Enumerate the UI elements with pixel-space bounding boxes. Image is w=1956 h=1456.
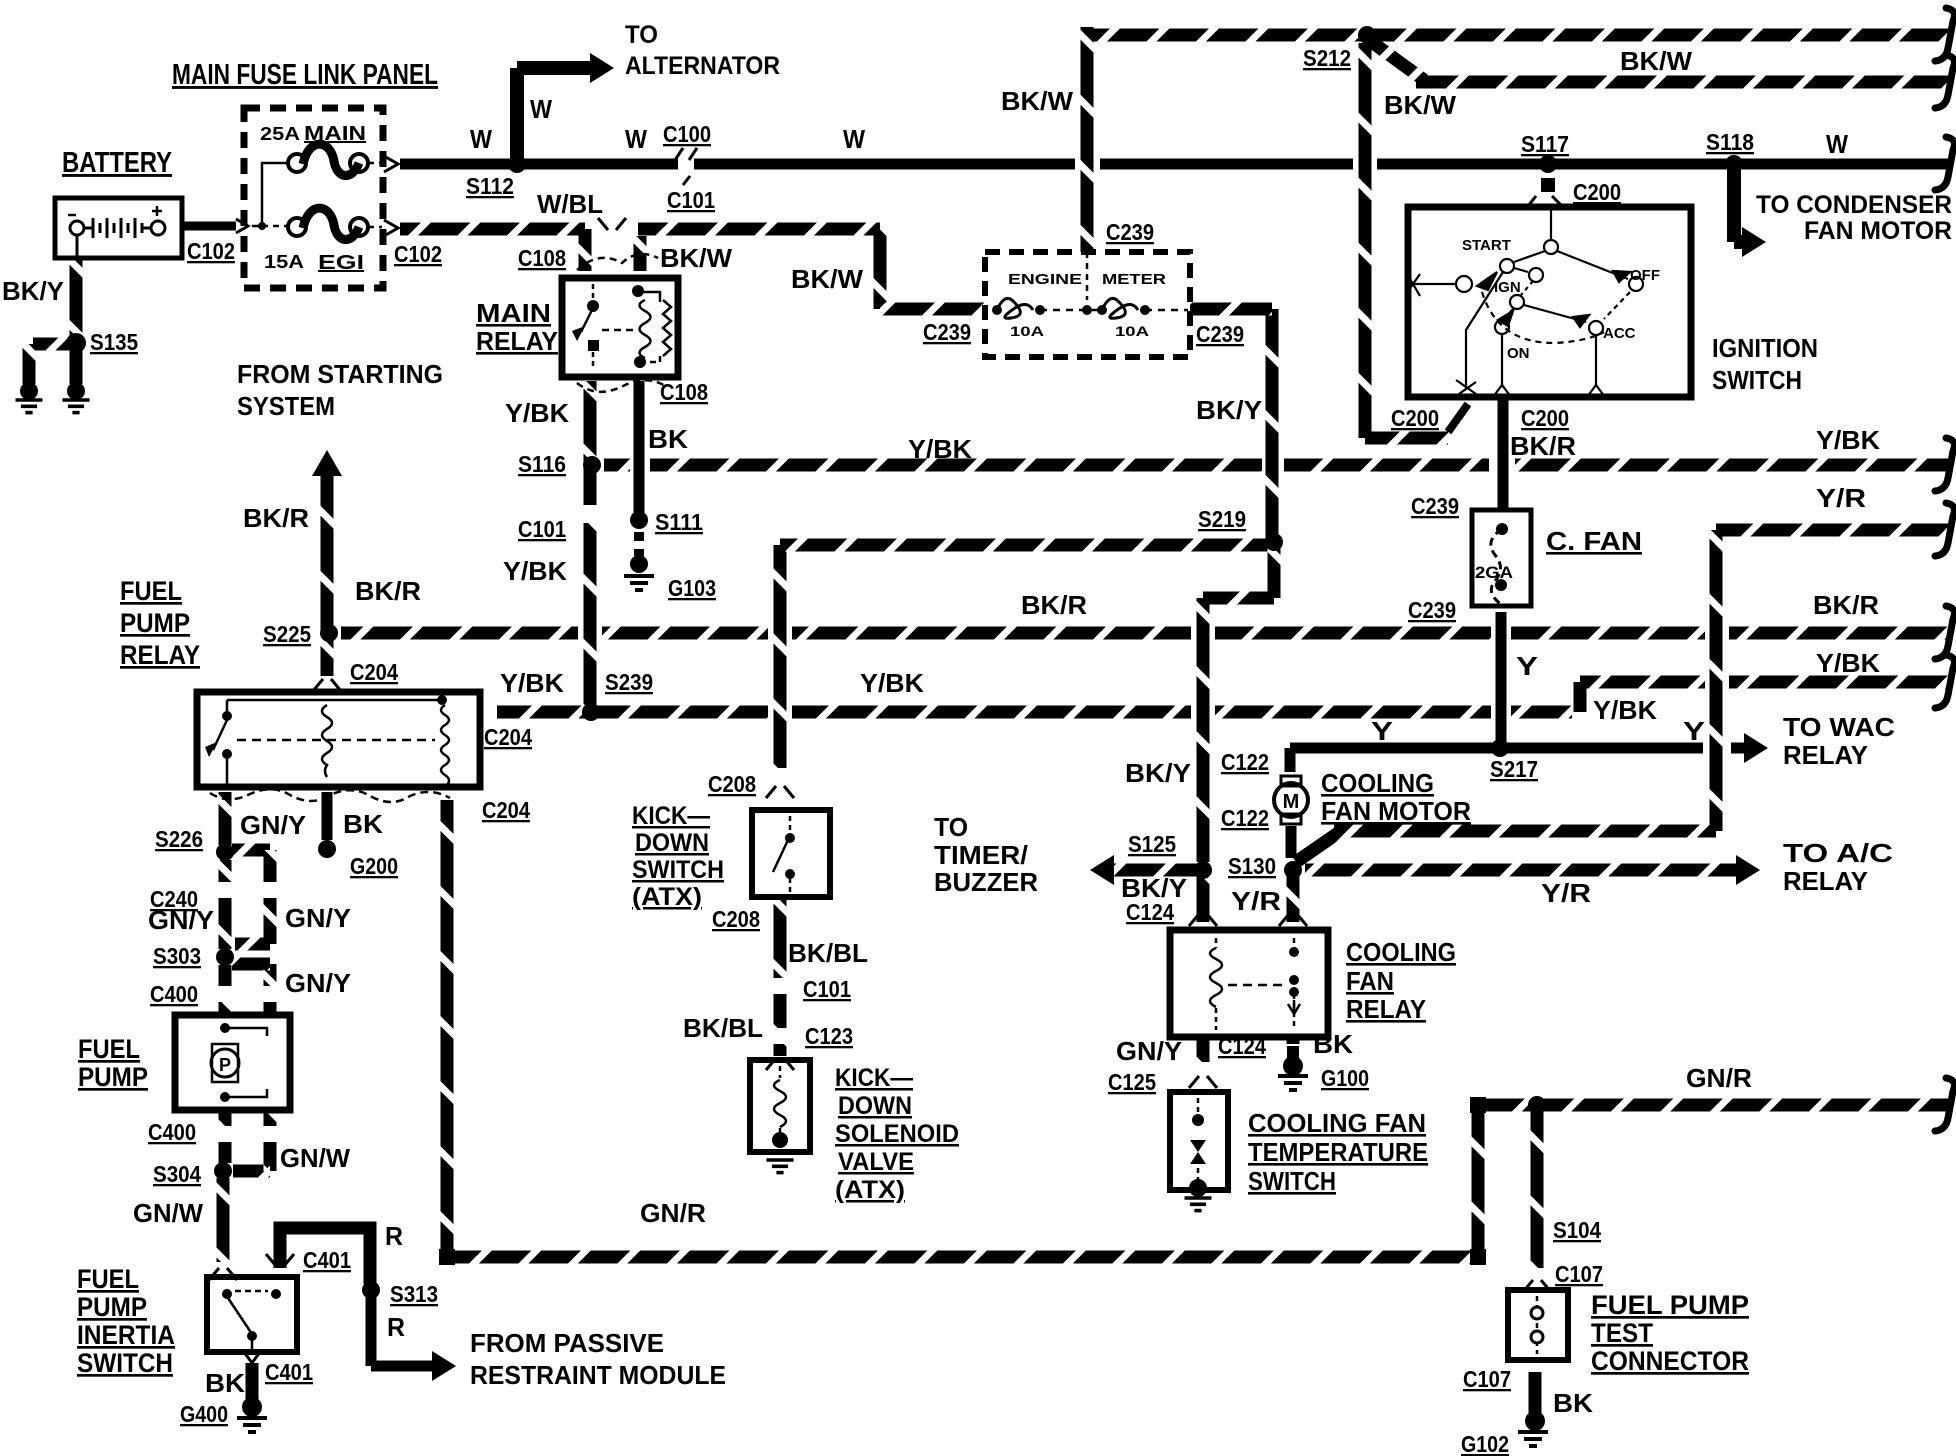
svg-text:C204: C204 (482, 797, 530, 823)
svg-text:Y: Y (1516, 651, 1538, 681)
svg-text:Y/R: Y/R (1541, 878, 1591, 908)
svg-text:C239: C239 (923, 319, 971, 345)
svg-text:RELAY: RELAY (1783, 866, 1868, 896)
svg-text:BK/W: BK/W (1620, 46, 1692, 76)
svg-text:S303: S303 (153, 943, 201, 969)
svg-text:P: P (219, 1055, 231, 1075)
svg-text:(ATX): (ATX) (632, 883, 702, 911)
svg-text:C200: C200 (1521, 405, 1569, 431)
svg-text:DOWN: DOWN (635, 829, 709, 857)
svg-text:S116: S116 (518, 451, 566, 477)
svg-text:10A: 10A (1115, 323, 1149, 339)
svg-text:PUMP: PUMP (120, 608, 190, 638)
svg-text:C108: C108 (660, 379, 708, 405)
svg-text:S135: S135 (90, 329, 138, 355)
svg-text:SWITCH: SWITCH (77, 1348, 173, 1378)
svg-text:GN/W: GN/W (280, 1143, 350, 1173)
svg-text:BK/W: BK/W (791, 264, 863, 294)
svg-text:C204: C204 (350, 659, 398, 685)
svg-text:S219: S219 (1198, 506, 1246, 532)
svg-text:C108: C108 (518, 245, 566, 271)
svg-text:RELAY: RELAY (1783, 740, 1868, 770)
svg-text:FUEL: FUEL (120, 576, 182, 606)
svg-text:COOLING FAN: COOLING FAN (1248, 1108, 1426, 1138)
svg-text:S225: S225 (263, 621, 311, 647)
svg-text:C200: C200 (1573, 179, 1621, 205)
svg-text:OFF: OFF (1630, 267, 1660, 284)
svg-text:ACC: ACC (1603, 325, 1636, 342)
svg-text:C107: C107 (1463, 1366, 1511, 1392)
svg-text:BK: BK (343, 809, 383, 839)
svg-text:KICK—: KICK— (835, 1064, 913, 1092)
svg-text:C200: C200 (1391, 405, 1439, 431)
svg-text:W: W (625, 124, 647, 154)
svg-text:GN/Y: GN/Y (148, 905, 214, 935)
svg-text:BK/R: BK/R (1813, 590, 1879, 620)
svg-text:FUEL: FUEL (77, 1264, 139, 1294)
svg-text:C239: C239 (1106, 219, 1154, 245)
svg-text:C400: C400 (148, 1119, 196, 1145)
svg-text:GN/W: GN/W (133, 1198, 203, 1228)
svg-text:RELAY: RELAY (476, 326, 558, 356)
svg-text:S112: S112 (466, 173, 514, 199)
svg-text:BK/W: BK/W (660, 243, 732, 273)
svg-text:S226: S226 (155, 826, 203, 852)
svg-text:RELAY: RELAY (120, 640, 200, 670)
svg-text:C. FAN: C. FAN (1546, 526, 1642, 556)
svg-text:W: W (530, 94, 552, 124)
svg-text:PUMP: PUMP (78, 1062, 148, 1092)
svg-text:C239: C239 (1196, 321, 1244, 347)
svg-text:C401: C401 (303, 1247, 351, 1273)
svg-text:25A: 25A (260, 124, 300, 144)
svg-text:10A: 10A (1010, 323, 1044, 339)
svg-text:W/BL: W/BL (537, 189, 603, 219)
svg-text:DOWN: DOWN (838, 1092, 912, 1120)
svg-text:MAIN: MAIN (476, 298, 551, 328)
svg-text:C122: C122 (1221, 805, 1269, 831)
svg-text:TIMER/: TIMER/ (934, 840, 1028, 870)
svg-text:ALTERNATOR: ALTERNATOR (625, 52, 780, 80)
svg-text:COOLING: COOLING (1321, 768, 1434, 798)
svg-text:15A: 15A (264, 252, 304, 272)
svg-text:C101: C101 (667, 187, 715, 213)
svg-text:M: M (1283, 791, 1300, 813)
svg-text:W: W (470, 124, 492, 154)
svg-text:GN/Y: GN/Y (240, 810, 306, 840)
svg-text:BK: BK (205, 1368, 245, 1398)
svg-text:BK: BK (1553, 1388, 1593, 1418)
svg-text:SWITCH: SWITCH (1712, 365, 1802, 395)
svg-text:BK/R: BK/R (243, 503, 309, 533)
svg-text:TO CONDENSER: TO CONDENSER (1756, 191, 1952, 219)
svg-text:EGI: EGI (318, 252, 364, 274)
svg-text:IGN: IGN (1494, 279, 1521, 296)
svg-text:FUEL PUMP: FUEL PUMP (1591, 1290, 1749, 1320)
svg-text:BUZZER: BUZZER (934, 867, 1038, 897)
svg-text:Y/BK: Y/BK (1816, 648, 1880, 678)
svg-text:RESTRAINT MODULE: RESTRAINT MODULE (470, 1360, 726, 1390)
svg-text:G102: G102 (1461, 1431, 1509, 1456)
svg-text:CONNECTOR: CONNECTOR (1591, 1346, 1749, 1376)
svg-text:S304: S304 (153, 1161, 201, 1187)
svg-text:Y/R: Y/R (1816, 483, 1866, 513)
svg-text:Y: Y (1371, 716, 1393, 746)
svg-text:BK/Y: BK/Y (2, 276, 64, 306)
svg-text:Y: Y (1683, 716, 1705, 746)
svg-text:W: W (1826, 129, 1848, 159)
svg-text:Y/BK: Y/BK (505, 398, 569, 428)
svg-text:C101: C101 (803, 976, 851, 1002)
svg-text:ON: ON (1507, 345, 1530, 362)
svg-text:VALVE: VALVE (838, 1148, 914, 1176)
svg-text:G103: G103 (668, 575, 716, 601)
svg-text:GN/Y: GN/Y (1116, 1036, 1182, 1066)
svg-text:R: R (387, 1312, 405, 1342)
svg-text:C208: C208 (708, 771, 756, 797)
svg-text:BK/W: BK/W (1384, 90, 1456, 120)
svg-text:GN/R: GN/R (1686, 1063, 1752, 1093)
svg-text:S239: S239 (605, 669, 653, 695)
svg-text:MAIN: MAIN (304, 123, 366, 145)
svg-text:MAIN FUSE LINK PANEL: MAIN FUSE LINK PANEL (172, 59, 438, 91)
svg-text:FUEL: FUEL (78, 1034, 140, 1064)
svg-text:C122: C122 (1221, 749, 1269, 775)
svg-text:TO A/C: TO A/C (1783, 838, 1893, 868)
svg-text:C239: C239 (1411, 493, 1459, 519)
svg-text:Y/BK: Y/BK (503, 556, 567, 586)
svg-text:FAN: FAN (1346, 966, 1394, 996)
svg-text:Y/BK: Y/BK (908, 434, 972, 464)
svg-text:TO: TO (934, 812, 968, 842)
svg-text:S117: S117 (1521, 131, 1569, 157)
svg-text:PUMP: PUMP (77, 1292, 147, 1322)
svg-text:C124: C124 (1126, 899, 1174, 925)
svg-text:Y/R: Y/R (1231, 886, 1281, 916)
svg-text:BK/Y: BK/Y (1196, 395, 1262, 425)
svg-text:BK: BK (1313, 1029, 1353, 1059)
svg-text:BK/Y: BK/Y (1125, 758, 1191, 788)
svg-text:C107: C107 (1555, 1261, 1603, 1287)
svg-text:TEST: TEST (1591, 1318, 1653, 1348)
svg-text:C102: C102 (394, 241, 442, 267)
svg-text:GN/R: GN/R (640, 1198, 706, 1228)
svg-text:Y/BK: Y/BK (1593, 695, 1657, 725)
svg-text:C400: C400 (150, 981, 198, 1007)
svg-text:METER: METER (1102, 271, 1166, 288)
svg-text:S111: S111 (655, 509, 703, 535)
svg-text:TEMPERATURE: TEMPERATURE (1248, 1137, 1428, 1167)
svg-text:W: W (843, 124, 865, 154)
svg-text:FROM STARTING: FROM STARTING (237, 359, 443, 389)
svg-text:C239: C239 (1408, 597, 1456, 623)
svg-text:BK/W: BK/W (1001, 86, 1073, 116)
svg-text:S217: S217 (1490, 756, 1538, 782)
svg-text:BK: BK (648, 424, 688, 454)
svg-text:C100: C100 (663, 121, 711, 147)
svg-text:BK/R: BK/R (355, 576, 421, 606)
svg-text:G400: G400 (180, 1401, 228, 1427)
svg-text:2GA: 2GA (1475, 563, 1513, 582)
svg-text:BK/BL: BK/BL (683, 1013, 763, 1043)
svg-text:SWITCH: SWITCH (632, 856, 724, 884)
svg-text:C401: C401 (265, 1359, 313, 1385)
svg-text:C204: C204 (484, 724, 532, 750)
svg-text:G100: G100 (1321, 1065, 1369, 1091)
svg-text:INERTIA: INERTIA (77, 1320, 175, 1350)
svg-text:SWITCH: SWITCH (1248, 1166, 1336, 1196)
svg-text:S313: S313 (390, 1281, 438, 1307)
svg-text:BK/BL: BK/BL (788, 938, 868, 968)
svg-text:FROM PASSIVE: FROM PASSIVE (470, 1328, 664, 1358)
svg-text:R: R (385, 1221, 403, 1251)
svg-text:KICK—: KICK— (632, 802, 710, 830)
svg-text:TO WAC: TO WAC (1783, 712, 1895, 742)
svg-text:SYSTEM: SYSTEM (237, 391, 335, 421)
svg-text:BATTERY: BATTERY (62, 147, 172, 179)
svg-text:Y/BK: Y/BK (860, 668, 924, 698)
svg-text:S118: S118 (1706, 129, 1754, 155)
svg-text:C101: C101 (518, 516, 566, 542)
svg-text:G200: G200 (350, 853, 398, 879)
svg-text:SOLENOID: SOLENOID (835, 1120, 959, 1148)
svg-text:S212: S212 (1303, 45, 1351, 71)
svg-text:C102: C102 (187, 238, 235, 264)
svg-text:IGNITION: IGNITION (1712, 333, 1818, 363)
svg-text:START: START (1462, 237, 1511, 254)
svg-text:(ATX): (ATX) (835, 1176, 905, 1204)
svg-text:ENGINE: ENGINE (1008, 271, 1082, 288)
svg-text:C124: C124 (1218, 1033, 1266, 1059)
svg-text:FAN MOTOR: FAN MOTOR (1804, 217, 1952, 245)
svg-text:Y/BK: Y/BK (500, 668, 564, 698)
svg-text:S104: S104 (1553, 1217, 1601, 1243)
svg-text:TO: TO (625, 21, 658, 49)
svg-text:BK/R: BK/R (1510, 431, 1576, 461)
svg-text:RELAY: RELAY (1346, 994, 1426, 1024)
svg-text:C208: C208 (712, 906, 760, 932)
svg-text:GN/Y: GN/Y (285, 903, 351, 933)
svg-text:S125: S125 (1128, 831, 1176, 857)
svg-text:GN/Y: GN/Y (285, 968, 351, 998)
svg-text:S130: S130 (1228, 853, 1276, 879)
svg-text:C125: C125 (1108, 1069, 1156, 1095)
svg-text:FAN MOTOR: FAN MOTOR (1321, 796, 1471, 826)
svg-text:C123: C123 (805, 1023, 853, 1049)
svg-text:Y/BK: Y/BK (1816, 425, 1880, 455)
svg-text:COOLING: COOLING (1346, 937, 1456, 967)
svg-text:BK/R: BK/R (1021, 590, 1087, 620)
